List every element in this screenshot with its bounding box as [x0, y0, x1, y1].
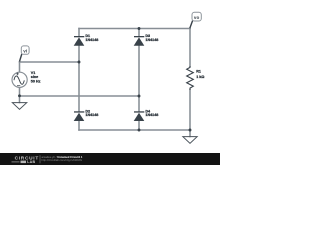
svg-text:http://circuitlab.com/c/qycv63: http://circuitlab.com/c/qycv63Rz8x	[42, 158, 83, 162]
svg-text:1N4148: 1N4148	[85, 38, 98, 42]
svg-text:1N4148: 1N4148	[145, 38, 158, 42]
svg-text:vi: vi	[23, 48, 27, 53]
svg-text:R1: R1	[196, 69, 201, 73]
svg-text:1N4148: 1N4148	[145, 113, 158, 117]
svg-text:1 kΩ: 1 kΩ	[196, 75, 204, 79]
svg-text:1N4148: 1N4148	[85, 113, 98, 117]
svg-text:LAB: LAB	[27, 160, 35, 164]
svg-text:sine: sine	[31, 75, 38, 79]
svg-text:50 Hz: 50 Hz	[31, 80, 41, 84]
svg-text:vo: vo	[194, 15, 200, 20]
